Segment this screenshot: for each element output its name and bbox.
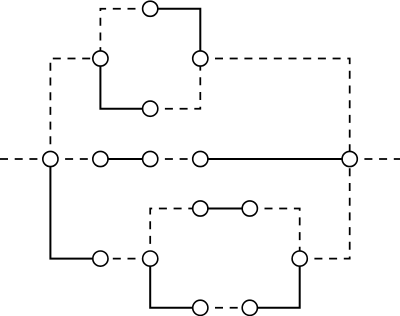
wire L5-L4 solid L-path (250, 259, 300, 308)
node B1 (93, 251, 108, 266)
node M2 (93, 151, 108, 166)
node T2 (93, 51, 108, 66)
wire M5-right edge stub dashed (350, 158, 400, 160)
wire L1-B1 dashed (100, 258, 150, 260)
node T3 (193, 51, 208, 66)
wire L2-L3 solid (200, 208, 250, 210)
node L4 (292, 251, 307, 266)
wire T1-T3 solid L-path (150, 9, 200, 59)
node M1 (43, 151, 58, 166)
node M3 (143, 151, 158, 166)
node L2 (193, 201, 208, 216)
node M5 (342, 151, 357, 166)
wire M2-M3 solid (100, 158, 150, 160)
node M4 (193, 151, 208, 166)
node L6 (193, 300, 208, 315)
wire T3-M5 dashed L-path (200, 59, 349, 160)
wire L3-L4 dashed L-path (250, 209, 300, 259)
wire M1-T2 dashed L-path (50, 59, 100, 160)
wire L1-L6 solid L-path (150, 259, 200, 308)
node L5 (242, 300, 257, 315)
wire L1-L2 dashed L-path (150, 209, 200, 259)
node L3 (242, 201, 257, 216)
wire M1-M2 dashed (50, 158, 100, 160)
wire M4-M5 solid (200, 158, 349, 160)
node L1 (143, 251, 158, 266)
wire L4-M5 dashed L-path (300, 159, 350, 259)
wire left edge stub to M1 dashed (0, 158, 50, 160)
node T1 (143, 1, 158, 16)
wire T1-T2 dashed L-path (100, 9, 150, 59)
node T4 (143, 101, 158, 116)
wire T2-T4 solid L-path (100, 59, 150, 109)
wire M3-M4 dashed (150, 158, 200, 160)
wire M1-B1 solid L-path (50, 159, 100, 259)
wire L6-L5 dashed (200, 307, 250, 309)
wire T4-T3 dashed L-path (150, 59, 200, 109)
